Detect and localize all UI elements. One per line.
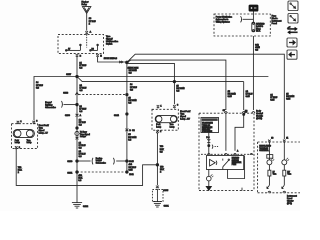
hazard switch box bbox=[207, 156, 244, 170]
splice S339 bbox=[76, 103, 79, 106]
wire label 14 LT BLU bbox=[79, 63, 86, 70]
wire: ground bus from left lamp bbox=[16, 149, 157, 185]
switch mechanical link (dashed) bbox=[86, 34, 88, 47]
ground G201 bbox=[153, 189, 170, 208]
splice dot on lower bus bbox=[173, 80, 175, 82]
dashed junction dot bbox=[126, 93, 128, 95]
svg-text:Pwr: Pwr bbox=[206, 137, 209, 139]
left front park/turn signal lamp box bbox=[12, 124, 38, 149]
wire: lower bus corner down to BCM bbox=[243, 82, 245, 110]
battery positive voltage icon bbox=[249, 5, 259, 12]
wire label below bbox=[128, 97, 137, 104]
wire label 750 BLK left bbox=[18, 167, 23, 174]
splice S343 bbox=[126, 61, 129, 64]
svg-text:10 A: 10 A bbox=[256, 30, 261, 33]
callout power distribution bbox=[216, 15, 232, 23]
IPC pin 16 bbox=[268, 138, 273, 143]
hazard switch text bbox=[232, 157, 242, 167]
wire: right front lamp feed bbox=[126, 62, 128, 172]
dot where S340 wire joins bbox=[126, 160, 128, 163]
BCM name label bbox=[256, 111, 264, 121]
svg-text:B3: B3 bbox=[92, 49, 94, 51]
wire into left indicator bbox=[268, 143, 270, 160]
lamp pin A bbox=[33, 120, 39, 123]
svg-text:C200: C200 bbox=[65, 115, 71, 117]
wire label below dot bbox=[160, 167, 165, 174]
wire label above junction bbox=[80, 85, 87, 92]
IPC internal text bbox=[259, 144, 271, 152]
right turn indicator lamp bbox=[282, 158, 289, 165]
callout: power lighting schematics bbox=[45, 101, 56, 109]
wire label 750 BLK bbox=[160, 146, 165, 153]
splice S342 bbox=[76, 127, 78, 129]
BCM internal wire 1 bbox=[225, 113, 227, 151]
harness pass-through grommet bbox=[75, 131, 79, 139]
BCM internal connector row bbox=[201, 153, 253, 155]
small internal box bbox=[267, 155, 273, 159]
svg-text:15 DK GRN 0.8: 15 DK GRN 0.8 bbox=[104, 58, 117, 60]
wire label below grommet bbox=[79, 142, 86, 149]
svg-text:Lamp - RT: Lamp - RT bbox=[180, 118, 190, 120]
splice dot S344 bbox=[114, 113, 128, 117]
dual filament bulb left bbox=[13, 129, 34, 137]
wire: lower bus branch with 45 deg jog bbox=[78, 78, 244, 82]
svg-text:(IPC): (IPC) bbox=[287, 203, 292, 205]
svg-text:Multifunction: Multifunction bbox=[106, 40, 119, 43]
svg-text:G201: G201 bbox=[164, 205, 170, 207]
ground junction dot bbox=[156, 164, 159, 167]
switch contact left bbox=[65, 44, 81, 51]
callout brace and leader bbox=[241, 16, 254, 22]
svg-text:S341: S341 bbox=[67, 172, 73, 174]
UI swap arrows glyph bbox=[287, 27, 298, 35]
body control module dashed box bbox=[199, 113, 254, 190]
svg-text:Turn: Turn bbox=[287, 173, 291, 176]
left indicator ground arrow bbox=[267, 176, 271, 193]
svg-text:Wiring Systems: Wiring Systems bbox=[216, 20, 230, 23]
dashed reference wire to right front lamp wire bbox=[79, 94, 126, 96]
wire: fuse output down to BCM bbox=[252, 36, 254, 110]
inline connector C305 bbox=[156, 186, 169, 192]
svg-text:11: 11 bbox=[286, 138, 288, 140]
BCM pin arc 3 bbox=[245, 112, 255, 114]
lamp name label bbox=[180, 110, 191, 121]
svg-text:C305: C305 bbox=[163, 190, 169, 192]
BCM pin arc 1 bbox=[223, 110, 228, 113]
row pin 1 bbox=[207, 153, 210, 154]
wire to BCM internal ground bbox=[208, 181, 210, 187]
row pin 2 bbox=[224, 153, 227, 154]
svg-text:Lamp: Lamp bbox=[170, 127, 175, 129]
BCM pin arc 2 bbox=[242, 110, 247, 113]
dual filament bulb bbox=[155, 115, 177, 122]
wire label on lower bus bbox=[130, 84, 137, 91]
svg-text:G102: G102 bbox=[83, 206, 89, 208]
row pin 3 bbox=[233, 150, 239, 155]
wire: diagonal up to IPC bus bbox=[128, 54, 285, 139]
svg-text:Lamp: Lamp bbox=[27, 142, 32, 144]
svg-text:Lamp: Lamp bbox=[15, 142, 20, 144]
left indicator resistor bbox=[268, 165, 276, 176]
wire label 14 LT BLU left bbox=[36, 82, 43, 89]
wire label at IPC drop right bbox=[286, 94, 295, 101]
lamp pin 1 (no wire) bbox=[157, 105, 163, 108]
svg-text:Schematics: Schematics bbox=[96, 162, 106, 165]
wire: flasher feed down to switch pin A bbox=[86, 13, 88, 30]
inline connector arrows on E wire bbox=[119, 61, 123, 63]
svg-text:S338: S338 bbox=[63, 92, 69, 94]
splice S337 bbox=[76, 75, 79, 78]
svg-text:(BCM): (BCM) bbox=[256, 118, 262, 120]
bulb labels left bbox=[15, 140, 20, 144]
terminal E bbox=[96, 54, 102, 57]
instrument panel cluster dashed box bbox=[258, 142, 300, 193]
bulb labels bbox=[156, 124, 161, 128]
wire label below connector bbox=[79, 119, 86, 126]
wire: bus to left front lamp bbox=[34, 77, 77, 121]
wire: right bus from splice S337 bbox=[77, 76, 268, 78]
fuse label bbox=[256, 22, 265, 32]
hazard indicator LED bbox=[207, 174, 214, 181]
wire: bus to BCM pin (y60) bbox=[128, 60, 226, 110]
svg-text:Switch: Switch bbox=[106, 43, 113, 46]
hazard switch blade bbox=[223, 159, 230, 170]
wire label at IPC drop left bbox=[270, 94, 277, 101]
terminal B bbox=[76, 54, 82, 57]
callout brace bbox=[61, 101, 64, 108]
wire label LT BLU bbox=[89, 18, 96, 25]
wire label 14 LT BLU below splice bbox=[79, 106, 86, 113]
end dot of dashed wire bbox=[126, 171, 128, 174]
lamp pin 3 bbox=[173, 105, 179, 108]
fuse HAZARD LAMPS 10A bbox=[252, 22, 255, 32]
lamp ground pin bbox=[15, 146, 21, 149]
wire into right indicator bbox=[283, 143, 285, 160]
switch contact right bbox=[90, 44, 99, 51]
svg-text:S340: S340 bbox=[67, 161, 73, 163]
turn signal / multifunction switch box bbox=[58, 34, 104, 53]
svg-text:PWM DRIVE: PWM DRIVE bbox=[202, 131, 213, 133]
right front park/turn signal lamp box bbox=[152, 109, 178, 130]
switch name label bbox=[106, 36, 119, 46]
wire label at BCM drop 2 bbox=[246, 91, 253, 98]
svg-text:C7: C7 bbox=[223, 110, 225, 112]
wire label 494 bbox=[129, 164, 137, 171]
terminal A of turn signal switch bbox=[85, 31, 91, 34]
row pin 4 bbox=[250, 153, 253, 154]
lamp pin (no wire) bbox=[17, 121, 23, 124]
callout to rear lamps bbox=[80, 131, 90, 138]
lamp pin 2 (ground) bbox=[156, 130, 162, 133]
wire label below connector bbox=[128, 134, 137, 141]
svg-text:A7: A7 bbox=[68, 48, 70, 51]
IPC name label bbox=[287, 194, 297, 205]
svg-text:PWM: PWM bbox=[232, 164, 237, 166]
svg-text:Lamps: Lamps bbox=[80, 136, 86, 138]
svg-text:Lamp: Lamp bbox=[156, 127, 161, 129]
svg-text:C8: C8 bbox=[245, 112, 247, 114]
wire: right lamp ground down bbox=[156, 134, 158, 186]
wire label above bus bbox=[129, 68, 138, 75]
ground G102 bbox=[72, 203, 89, 208]
svg-text:S337: S337 bbox=[66, 74, 72, 76]
svg-text:Turn: Turn bbox=[273, 173, 277, 176]
hazard switch symbol driver bbox=[210, 159, 217, 166]
fuse block dashed box bbox=[214, 14, 270, 36]
wire: right turn feed from terminal E bbox=[98, 57, 126, 62]
BCM internal feed from table bbox=[206, 133, 218, 154]
inline connector C2 on lamp feed bbox=[125, 129, 135, 132]
node: power feed label bbox=[82, 0, 89, 6]
svg-text:Schematics: Schematics bbox=[45, 106, 56, 109]
svg-text:16: 16 bbox=[271, 138, 273, 140]
BCM internal wire 2 with jog bbox=[235, 113, 245, 151]
dashed wire S341 to right lamp wire bbox=[77, 171, 127, 173]
splice S341 bbox=[76, 171, 79, 174]
wire: bus to right lamp drop (y63.4) bbox=[128, 63, 174, 104]
svg-text:Lamp - LT: Lamp - LT bbox=[39, 133, 49, 135]
junction marker on left wire bbox=[63, 92, 78, 95]
BCM logic table box bbox=[201, 118, 219, 134]
right indicator ground arrow bbox=[282, 176, 286, 193]
right indicator resistor bbox=[283, 165, 291, 176]
UI button next bbox=[287, 38, 297, 47]
wire: hazard indicator branch bbox=[208, 170, 210, 177]
pin tick on BCM bottom edge bbox=[241, 188, 243, 191]
wire: battery feed to fuse bbox=[252, 12, 254, 23]
BCM internal ground triangle bbox=[206, 186, 211, 190]
wire: splice S340 to right lamp ground wire bbox=[77, 160, 127, 162]
wire label on right lamp drop bbox=[176, 85, 185, 92]
UI button zoom 2 bbox=[288, 14, 298, 24]
UI button prev bbox=[287, 50, 297, 59]
inline connector C200 bbox=[65, 114, 82, 117]
wire label 450 BLK bbox=[78, 175, 83, 182]
reference stub wire bbox=[64, 104, 76, 106]
IPC pin 11 bbox=[283, 138, 288, 143]
lamp name label left bbox=[39, 124, 50, 135]
fuse block name label bbox=[272, 16, 282, 26]
svg-text:CONTROL: CONTROL bbox=[259, 150, 268, 152]
left turn indicator lamp bbox=[267, 158, 274, 165]
wire label at BCM drop 1 bbox=[228, 91, 237, 98]
splice S340 bbox=[76, 160, 79, 163]
wire label 342 ORN bbox=[255, 45, 260, 52]
wire: hazard switch return elbow bbox=[228, 156, 245, 179]
power feed triangle bbox=[82, 7, 91, 14]
callout: backup lamps schematics bbox=[92, 158, 114, 165]
UI button zoom 1 bbox=[288, 1, 298, 11]
wire: left turn feed from terminal B down bbox=[76, 57, 78, 202]
svg-text:Panel: Panel bbox=[272, 23, 278, 25]
svg-text:S344: S344 bbox=[114, 115, 120, 117]
ground shield dashed box bbox=[152, 190, 163, 202]
